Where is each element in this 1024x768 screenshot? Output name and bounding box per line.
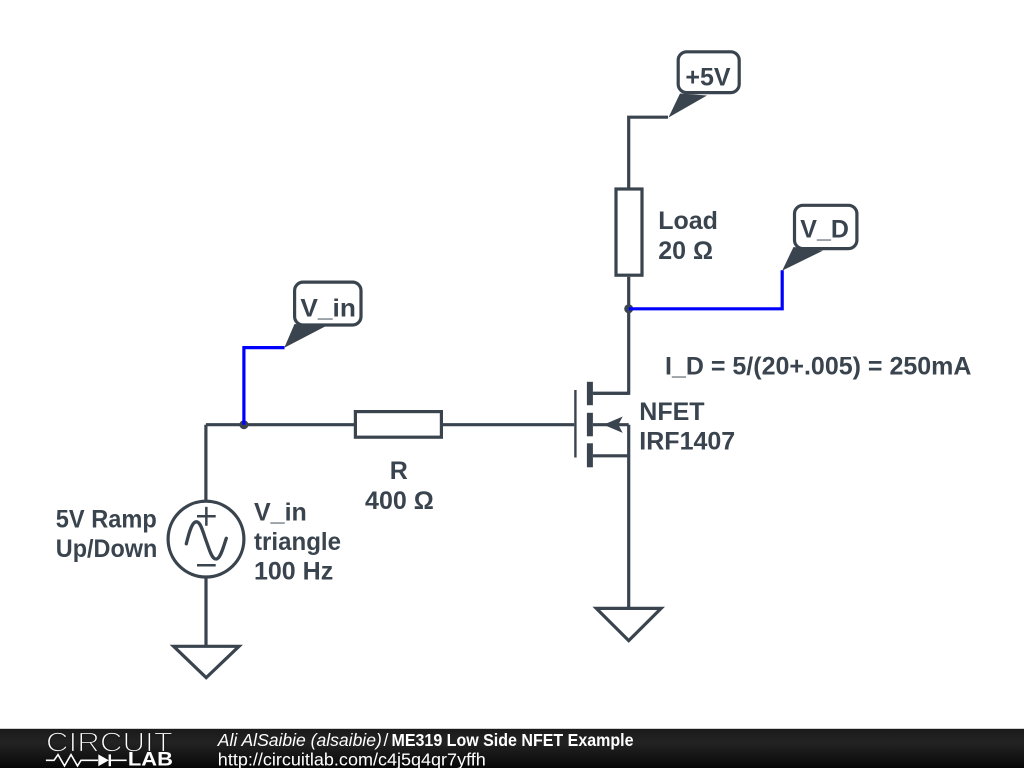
label 5V Ramp Up/Down <box>56 506 158 563</box>
svg-text:Ali AlSaibie (alsaibie): Ali AlSaibie (alsaibie) <box>217 730 382 750</box>
wire resistor R to gate <box>443 423 574 426</box>
svg-text:Load: Load <box>658 207 718 235</box>
wire source V1 to ground <box>204 577 207 646</box>
wire (blue) node to V_in flag <box>244 348 285 425</box>
svg-text:400 Ω: 400 Ω <box>365 487 434 515</box>
label Load 20 Ohm <box>658 207 718 265</box>
body lead with arrow <box>593 423 629 426</box>
svg-text:20 Ω: 20 Ω <box>658 237 713 265</box>
CircuitLab logo resistor zigzag <box>46 755 98 766</box>
footer author line <box>217 730 634 750</box>
wire V_in node to resistor R <box>206 423 354 426</box>
svg-text:V_in: V_in <box>300 295 356 323</box>
node V_in junction dot <box>239 420 248 429</box>
source lead <box>593 454 629 457</box>
svg-text:+5V: +5V <box>685 63 731 91</box>
wire (blue) node to V_D flag <box>629 270 783 309</box>
wire from +5V flag down to load resistor <box>629 117 668 190</box>
label NFET IRF1407 <box>639 398 735 455</box>
ground under source V1 <box>174 646 239 677</box>
svg-text:V_D: V_D <box>800 216 849 244</box>
power flag +5V <box>669 52 740 118</box>
svg-text:ME319 Low Side NFET Example: ME319 Low Side NFET Example <box>392 730 634 750</box>
svg-text:Up/Down: Up/Down <box>56 535 158 563</box>
node V_D junction dot <box>624 304 633 313</box>
svg-text:/: / <box>384 730 389 750</box>
channel bar top <box>587 382 593 405</box>
svg-text:100 Hz: 100 Hz <box>254 557 333 585</box>
resistor R (horizontal box) <box>355 412 441 438</box>
svg-text:I_D = 5/(20+.005) = 250mA: I_D = 5/(20+.005) = 250mA <box>665 353 971 381</box>
gate bar <box>574 390 576 458</box>
CircuitLab logo diode <box>98 754 126 766</box>
node label flag V_in <box>284 282 361 348</box>
transistor Q1 NFET symbol <box>575 382 628 609</box>
svg-text:LAB: LAB <box>128 750 173 768</box>
channel bar bottom <box>587 443 593 467</box>
drain lead <box>593 392 629 395</box>
sine squiggle <box>186 522 226 559</box>
svg-text:IRF1407: IRF1407 <box>639 428 735 456</box>
svg-text:R: R <box>390 457 408 485</box>
svg-text:5V Ramp: 5V Ramp <box>56 506 157 534</box>
label R 400 Ohm <box>365 457 434 515</box>
resistor Load (vertical box) <box>616 189 642 275</box>
svg-text:V_in: V_in <box>254 499 307 527</box>
channel bar middle <box>587 413 593 437</box>
svg-text:NFET: NFET <box>639 398 704 426</box>
svg-text:triangle: triangle <box>254 528 341 556</box>
label V_in triangle 100 Hz <box>254 499 341 586</box>
minus sign <box>197 564 216 567</box>
voltage source V1 circle <box>168 501 244 577</box>
svg-text:http://circuitlab.com/c4j5q4qr: http://circuitlab.com/c4j5q4qr7yffh <box>218 750 486 768</box>
wire load resistor to NFET drain <box>593 277 629 394</box>
ground under NFET <box>596 608 661 640</box>
plus sign <box>197 507 216 526</box>
node label flag V_D <box>782 205 857 270</box>
source vertical wire <box>627 425 630 609</box>
wire node down to source V1 <box>204 425 207 502</box>
footer black bar <box>0 729 1024 768</box>
